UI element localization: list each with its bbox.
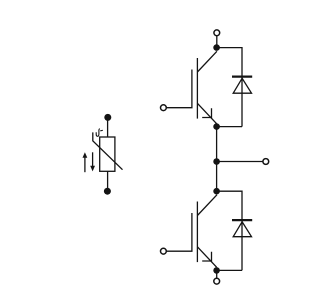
terminal dot thermistor top [104,114,111,121]
terminal dot thermistor bottom [104,188,111,195]
wire to diode D2 branch (right and down) [217,191,242,270]
Q1 emitter diagonal [197,103,216,123]
thermistor RT1 diagonal line [93,132,123,169]
wire Q1 emitter down to midpoint [216,127,218,162]
Q1 body bar [196,58,198,119]
junction dot Q1 emitter [213,123,220,130]
junction dot top (collector Q1 / cathode D1) [213,44,220,51]
Q2 emitter diagonal [197,247,216,267]
wire to diode D1 branch (right and down) [217,48,242,127]
wire thermistor bottom lead [107,171,109,191]
wire midpoint down to Q2 collector [216,162,218,192]
wire midpoint to output terminal [217,161,263,163]
wire top terminal to junction [216,36,218,48]
diode D2 triangle [233,222,251,237]
Q2 emitter arrowhead [202,252,211,261]
wire diode D2 anode to emitter junction [217,269,242,271]
IGBT Q2 [161,195,217,267]
Q1 emitter arrowhead [202,108,211,117]
junction dot Q2 collector [213,188,220,195]
diode D2 cathode bar [232,219,252,221]
wire thermistor top lead [107,117,109,137]
arrow up (thermistor) [83,152,88,172]
terminal phase output (open circle) [263,159,269,165]
Q1 gate terminal (open circle) [161,105,167,111]
Q1 collector diagonal [197,51,217,72]
IGBT Q1 [161,51,217,123]
thermistor RT1 body [100,137,115,171]
terminal emitter bottom (open circle) [214,278,220,284]
diode D1 triangle [233,78,251,93]
junction dot Q2 emitter [213,267,220,274]
arrow down (thermistor) [90,152,95,171]
terminal collector top (open circle) [214,30,220,36]
wire Q2 emitter to bottom terminal [216,270,218,278]
junction dot midpoint (phase output node) [213,158,220,165]
thermistor temperature label ϑ [96,129,103,137]
wire diode D1 anode to emitter junction [217,126,242,128]
Q2 collector diagonal [197,195,217,216]
Q2 body bar [196,202,198,263]
diode D1 cathode bar [232,75,252,77]
wire Q1 gate lead [167,70,192,108]
Q2 gate terminal (open circle) [161,248,167,254]
wire Q2 gate lead [167,213,192,251]
